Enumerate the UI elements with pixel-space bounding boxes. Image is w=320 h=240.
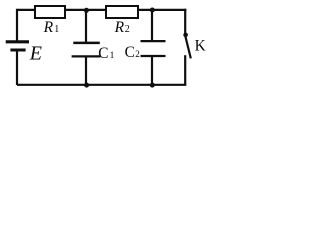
svg-text:C: C [125, 44, 135, 61]
svg-text:R: R [114, 19, 125, 36]
svg-text:1: 1 [54, 24, 59, 35]
svg-text:K: K [195, 38, 206, 55]
svg-text:2: 2 [135, 49, 140, 59]
svg-text:E: E [29, 42, 42, 64]
svg-text:R: R [43, 19, 54, 36]
svg-text:1: 1 [110, 51, 115, 61]
svg-text:2: 2 [125, 24, 130, 35]
svg-text:C: C [98, 45, 108, 62]
